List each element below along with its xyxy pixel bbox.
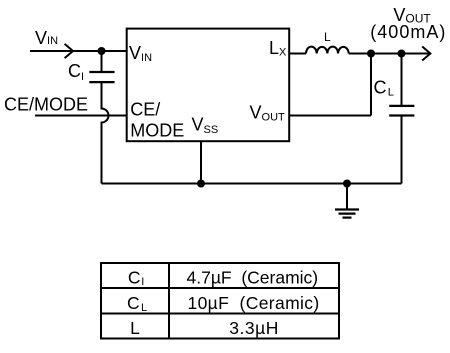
node VIN junction dot <box>98 47 106 55</box>
wire CL bottom to rail <box>401 117 403 184</box>
svg-text:(400mA): (400mA) <box>370 22 446 42</box>
wire VIN node to CI <box>101 51 103 71</box>
node CL junction dot <box>398 50 406 58</box>
svg-text:4.7µF (Ceramic): 4.7µF (Ceramic) <box>187 267 319 287</box>
node ground junction dot <box>343 180 351 188</box>
inductor L <box>306 47 349 54</box>
svg-text:MODE: MODE <box>130 120 184 140</box>
wire feedback vertical <box>370 54 372 116</box>
wire CE/MODE input <box>35 115 126 117</box>
wire VOUT pin to feedback node <box>289 115 371 117</box>
op-amp U1 regulator IC body <box>127 29 290 142</box>
wire CI to bottom rail with hop over CE/MODE <box>102 83 109 184</box>
wire ground stem <box>346 184 348 210</box>
wire LX pin to inductor <box>289 53 306 55</box>
node LX/VOUT feedback junction dot <box>367 50 375 58</box>
svg-text:10µF (Ceramic): 10µF (Ceramic) <box>188 293 320 313</box>
svg-text:3.3µH: 3.3µH <box>229 318 279 338</box>
ground symbol <box>335 210 359 218</box>
pin label CE/MODE <box>130 100 184 141</box>
svg-text:L: L <box>130 318 140 338</box>
node VSS junction dot <box>197 180 205 188</box>
arrow on VIN wire <box>65 44 73 58</box>
wire CL top <box>401 54 403 106</box>
wire VIN input <box>30 50 126 52</box>
svg-text:CE/: CE/ <box>130 100 160 120</box>
capacitor CL <box>389 106 414 116</box>
svg-text:L: L <box>324 30 331 44</box>
capacitor CI <box>89 72 114 82</box>
wire bottom ground rail <box>102 183 402 185</box>
svg-text:CE/MODE: CE/MODE <box>4 95 88 115</box>
wire VSS pin to rail <box>200 141 202 184</box>
table component values <box>101 263 339 339</box>
arrow on VOUT wire <box>422 47 430 61</box>
wire inductor to output arrow <box>349 53 430 55</box>
